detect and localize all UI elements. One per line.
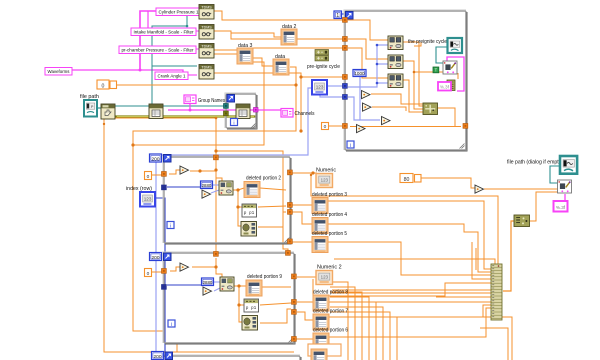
wire orange l2 dfa out xyxy=(260,309,291,323)
wire orange data in xyxy=(253,58,273,66)
svg-text:200: 200 xyxy=(151,255,159,261)
svg-text:Waveforms: Waveforms xyxy=(48,69,71,75)
tunnel loop1 r4 xyxy=(288,239,293,244)
wire orange bottom out1 xyxy=(483,317,512,360)
for loop 2 (deleted portions 6-9) xyxy=(163,252,295,344)
iteration terminal loop2 xyxy=(168,320,175,328)
tunnel loop2 index xyxy=(162,285,167,290)
label deleted portion 4 xyxy=(312,212,347,218)
svg-text:2880: 2880 xyxy=(203,280,213,285)
split waveform VI 2 xyxy=(388,55,403,69)
path control dialog xyxy=(560,156,577,174)
numeric constant 2880 (loop1) xyxy=(201,181,213,189)
TDMS Read VI 1 xyxy=(199,5,214,20)
loop2 N terminal xyxy=(164,253,172,261)
numeric control pre-ignite cycle xyxy=(312,80,327,95)
local variable deleted portion 9 xyxy=(246,280,262,296)
wire teal filepath xyxy=(97,107,101,109)
label deleted portion 3 xyxy=(312,192,347,198)
wire teal graph to write xyxy=(436,47,448,63)
tunnel blue2 xyxy=(343,95,348,100)
wire orange stair 3 xyxy=(330,292,362,360)
wire orange dp5 in xyxy=(290,241,312,243)
multiply B xyxy=(363,103,372,111)
wire lblue preignite left xyxy=(156,88,312,360)
tunnel loop1 r2 xyxy=(288,203,293,208)
tunnel loop1 r3 xyxy=(288,210,293,215)
wire orange tun2 to vi2 xyxy=(348,39,388,59)
path control file path xyxy=(84,100,97,117)
wire blue index chain xyxy=(154,198,165,355)
wire orange l2 dots xyxy=(237,284,240,306)
wire orange tdms3 out xyxy=(214,48,344,50)
wire pink intake branch xyxy=(147,11,149,28)
local variable data 3 xyxy=(237,48,253,64)
wire orange numeric2 in xyxy=(297,276,316,278)
tunnel right out xyxy=(463,124,468,129)
wire pink write2 xyxy=(564,194,566,201)
build array triangle xyxy=(475,185,484,193)
wire orange stair 1 xyxy=(330,282,348,360)
wire orange dp5 long xyxy=(334,259,495,265)
add D xyxy=(357,125,366,133)
wire orange loop1 tri in xyxy=(169,170,180,174)
wire orange dp5 out xyxy=(328,242,491,275)
small loop TDMS VI xyxy=(236,104,250,119)
tunnel tdms2 xyxy=(343,37,348,42)
wire orange dp6 in xyxy=(294,338,313,340)
multiply loop2 xyxy=(203,287,212,295)
wire orange row feed3 xyxy=(436,296,491,298)
boolean constant T xyxy=(433,67,439,73)
wire orange loop1 vert xyxy=(216,162,222,181)
tunnel loop2 zero xyxy=(162,269,167,274)
wire orange loop2 bottom stub xyxy=(176,343,178,352)
format icon 2 xyxy=(554,201,568,212)
wire orange tdms1 out xyxy=(214,11,344,20)
svg-text:80: 80 xyxy=(404,177,410,183)
wire orange dp4 in xyxy=(292,212,312,224)
wire orange tdms4 out xyxy=(214,73,344,77)
wire orange data3 down xyxy=(133,62,264,145)
label file path xyxy=(80,94,99,100)
svg-text:i: i xyxy=(350,143,351,149)
for loop 1 (deleted portions 2-5) xyxy=(163,156,291,244)
resize glyph loop1 xyxy=(285,238,290,243)
tunnel loop2 top xyxy=(214,252,219,257)
wire blue vi pins xyxy=(377,45,388,83)
label deleted portion 7 xyxy=(313,309,348,315)
wire blue vert feed xyxy=(348,45,377,87)
delete from array VI loop1 xyxy=(241,222,257,237)
svg-text:pr-chamber Pressure - Scale -: pr-chamber Pressure - Scale - Filter xyxy=(122,48,194,54)
local variable deleted portion 7 xyxy=(313,314,329,330)
split waveform VI 1 xyxy=(388,36,403,50)
wire orange fmt elbow xyxy=(457,73,459,79)
wire blue 1000 down xyxy=(360,77,380,120)
wire orange l2 ppl out xyxy=(260,303,291,305)
svg-text:deleted portion 2: deleted portion 2 xyxy=(246,176,281,182)
tunnel tdms1 xyxy=(343,18,348,23)
wire orange tun1 to vi1 xyxy=(348,20,388,40)
wire orange loop2 zero xyxy=(151,271,164,273)
tunnel loop2 r2 xyxy=(292,300,297,305)
svg-text:deleted portion 9: deleted portion 9 xyxy=(247,274,282,280)
wire pink gn left xyxy=(168,109,190,111)
wire pink waveforms xyxy=(72,70,183,73)
wire orange graph in xyxy=(414,42,421,46)
numeric constant 0 (loop2) xyxy=(145,269,152,277)
wire orange khaki out xyxy=(437,108,455,126)
wire orange barr top feeds xyxy=(475,248,477,270)
wire orange dp6 out xyxy=(329,308,491,337)
TDMS Read VI 2 xyxy=(199,25,214,40)
label deleted portion 5 xyxy=(312,231,347,237)
TDMS Open VI xyxy=(101,104,115,119)
numeric constant 1000 xyxy=(353,70,366,77)
tunnel loop1 index xyxy=(162,185,167,190)
tunnel loop1 zero xyxy=(162,172,167,177)
label file path dialog if empty xyxy=(507,160,563,166)
wire orange tri80 out xyxy=(484,188,558,190)
svg-text:pre-ignite cycle: pre-ignite cycle xyxy=(307,64,340,70)
label deleted portion 6 xyxy=(313,328,348,334)
numeric indicator Numeric xyxy=(316,174,333,188)
wire orange l1 ppl out xyxy=(258,206,286,207)
svg-text:0: 0 xyxy=(102,83,105,89)
wire orange write in xyxy=(414,71,443,73)
svg-text:i: i xyxy=(233,120,234,126)
wire orange bottom out2 xyxy=(480,328,508,360)
wire orange numeric wrap xyxy=(311,175,498,267)
svg-text:200: 200 xyxy=(151,156,159,162)
label frame clipped (bottom) xyxy=(308,344,341,356)
label Group Names xyxy=(198,98,225,104)
wire orange loop bottom run xyxy=(350,126,461,128)
write waveforms VI xyxy=(443,61,457,74)
resize glyph (preignite loop) xyxy=(460,144,465,149)
wire pink gn dot xyxy=(189,109,192,112)
wire olive refnum inner xyxy=(117,116,254,118)
label Numeric 2 xyxy=(317,265,342,271)
TDMS List Contents VI xyxy=(149,104,163,119)
wire blue 2880b stub xyxy=(214,282,220,291)
wire orange l1 ppl in xyxy=(238,206,244,208)
label data 2 xyxy=(282,24,297,30)
svg-text:Group Names: Group Names xyxy=(198,98,225,104)
wire orange loop2 tri out xyxy=(192,266,216,268)
tunnel loop1 r1 xyxy=(288,170,293,175)
wire blue loop2 in xyxy=(167,284,202,286)
wire orange dp4 out xyxy=(328,224,491,272)
wire lblue preignite right1 xyxy=(328,85,344,87)
svg-text:Crank Angle 1: Crank Angle 1 xyxy=(158,74,186,80)
numeric control index row xyxy=(140,192,155,207)
wire orange dot l1 xyxy=(214,168,217,171)
label deleted portion 2 xyxy=(246,176,281,182)
numeric constant 80 xyxy=(400,174,421,183)
resize glyph loop2 xyxy=(289,338,294,343)
string label Cylinder Pressure 1 xyxy=(156,8,201,16)
multiply C xyxy=(382,117,391,125)
for loop: group names (small) xyxy=(225,93,257,129)
small loop tunnels xyxy=(224,104,259,116)
tunnel loop2 r4 xyxy=(292,337,297,342)
wire orange zero tun xyxy=(328,125,342,127)
multiply A xyxy=(362,91,371,99)
small loop N terminal xyxy=(227,95,235,103)
small loop iteration terminal xyxy=(231,119,238,127)
wire orange write dot xyxy=(413,71,416,74)
format string VI xyxy=(438,80,455,91)
wire orange row feed2 xyxy=(332,292,491,294)
wire orange loop2 tri in xyxy=(170,267,180,271)
loop N terminal (preignite loop) xyxy=(346,12,354,20)
wire orange l1 fan xyxy=(233,190,242,226)
tunnel loop2 r3 xyxy=(292,310,297,315)
local variable deleted portion 8 xyxy=(313,295,329,311)
label Numeric xyxy=(316,168,336,174)
wire orange data2 in xyxy=(231,33,281,37)
cluster VI loop1 xyxy=(219,181,233,195)
loop3 N terminal xyxy=(165,352,173,360)
iteration terminal (preignite loop) xyxy=(347,141,354,149)
wire orange stair 6 xyxy=(330,307,383,360)
wire orange dp5b xyxy=(472,242,491,279)
wire orange khaki2 out xyxy=(530,192,558,221)
wire orange 80 out xyxy=(421,178,475,188)
label pre-ignite cycle xyxy=(307,64,340,70)
increment loop1 xyxy=(180,166,189,174)
wire orange branch loop2 top xyxy=(216,151,288,253)
tunnel zero xyxy=(343,124,348,129)
wire blue loop1 in xyxy=(167,186,201,188)
numeric constant 0 (loop edge) xyxy=(322,123,329,130)
tunnel tdms3 xyxy=(343,46,348,51)
split array VI loop2 xyxy=(244,299,259,312)
tunnel blue1 xyxy=(343,84,348,89)
in range and coerce xyxy=(423,103,438,115)
wire orange zero const xyxy=(116,84,296,86)
label deleted portion 9 xyxy=(247,274,282,280)
svg-text:Channels: Channels xyxy=(295,111,315,117)
wire orange data loop xyxy=(133,67,296,331)
wire teal tdms4 stub xyxy=(152,65,197,67)
TDMS Read VI 4 xyxy=(199,65,214,80)
local variable deleted portion 2 xyxy=(244,182,260,198)
string label Waveforms xyxy=(45,68,72,76)
wire orange tun3 to vi3 xyxy=(348,48,388,78)
wire orange numeric2 wrap xyxy=(313,279,491,296)
delete from array VI loop2 xyxy=(242,316,258,331)
wire orange l2 dp9 out xyxy=(262,286,291,288)
svg-text:2880: 2880 xyxy=(202,183,212,188)
label index (row) xyxy=(126,186,152,192)
wire pink crank to tdms4 xyxy=(188,74,197,76)
build array node xyxy=(491,264,502,320)
wire orange barr out xyxy=(503,221,514,291)
wire orange l1 dots xyxy=(236,188,239,208)
wire blue dots xyxy=(376,44,379,85)
svg-text:i: i xyxy=(171,322,172,328)
wire orange l1 dp2 out xyxy=(260,188,286,190)
wire teal dot xyxy=(186,25,189,28)
wire orange l1 dfa out xyxy=(258,212,286,227)
local variable deleted portion 4 xyxy=(312,218,328,234)
svg-text:%.3f: %.3f xyxy=(556,205,566,210)
wire orange l1 dp2 in xyxy=(238,188,244,190)
numeric constant 2880 (loop2) xyxy=(202,278,214,286)
wire orange numeric dot xyxy=(310,171,315,176)
wire pink groupnames xyxy=(190,103,281,110)
wire orange stair 7 xyxy=(330,312,390,360)
svg-text:1: 1 xyxy=(336,13,339,19)
wire orange dp red dots xyxy=(312,204,315,244)
waveform graph terminal xyxy=(448,38,463,53)
wire teal open to list xyxy=(115,105,226,107)
label deleted portion 8 xyxy=(313,290,348,296)
wire orange l2 ppl in xyxy=(239,304,244,306)
transpose array VI xyxy=(514,215,530,227)
tunnel loop2 r1 xyxy=(292,274,297,279)
numeric constant 0 (top left) xyxy=(97,80,117,89)
local variable deleted portion 3 xyxy=(312,198,328,214)
wire pink trunk xyxy=(140,11,157,70)
wire orange row feed1 xyxy=(332,289,491,291)
label the preignite cycle xyxy=(408,39,447,45)
numeric constant 200 (loop2) xyxy=(150,253,162,261)
wire pink write loop xyxy=(447,57,464,91)
iteration terminal loop1 xyxy=(167,222,174,230)
wire teal fp dialog xyxy=(550,166,560,183)
TDMS Read VI 3 xyxy=(199,44,214,59)
wire orange dp8 out xyxy=(329,301,491,303)
loop1 N terminal xyxy=(164,155,172,163)
local variable deleted portion 6 xyxy=(313,333,329,349)
svg-text:Intake Manifold - Scale - Filt: Intake Manifold - Scale - Filter xyxy=(134,30,194,36)
string array Channels xyxy=(281,109,293,118)
tunnel loop2 top b xyxy=(286,251,291,256)
write spreadsheet VI xyxy=(558,180,572,193)
numeric constant 0 (loop1) xyxy=(145,172,152,180)
string label pre-chamber Pressure xyxy=(119,46,196,54)
numeric constant 1 xyxy=(334,11,342,19)
cluster VI loop2 xyxy=(220,277,234,291)
wire blue 2880 stub xyxy=(211,185,219,193)
svg-text:0: 0 xyxy=(324,124,327,130)
svg-text:Numeric 2: Numeric 2 xyxy=(317,265,342,271)
wire orange vi1 out xyxy=(403,42,424,106)
wire orange tdms3 to data3 xyxy=(214,53,237,55)
string array constant xyxy=(184,95,196,104)
wire orange vi2 out xyxy=(403,61,424,109)
wire pink to prechamber box xyxy=(140,48,199,50)
wire orange numeric in xyxy=(292,172,317,174)
wire olive tdms refnum xyxy=(115,115,256,117)
svg-text:i: i xyxy=(170,223,171,229)
wire orange dp8 in xyxy=(297,301,313,303)
string label Intake Manifold xyxy=(131,28,196,36)
label data xyxy=(275,54,285,60)
wire orange stair 4 xyxy=(330,297,369,360)
numeric constant 200 (loop1) xyxy=(150,154,162,162)
svg-text:0: 0 xyxy=(147,271,150,277)
wire orange branch down xyxy=(299,75,302,132)
increment loop2 xyxy=(180,263,189,271)
wire orange stair 2 xyxy=(330,287,355,360)
TDMS property node pair xyxy=(315,50,329,61)
wire orange triB out xyxy=(372,107,406,111)
wire orange loop1 tri out xyxy=(190,169,216,172)
svg-text:200: 200 xyxy=(153,354,161,360)
local variable deleted portion 5 xyxy=(312,237,328,253)
svg-text:file path (dialog if empty): file path (dialog if empty) xyxy=(507,160,563,166)
tunnel loop1 top xyxy=(214,155,219,160)
svg-text:Numeric: Numeric xyxy=(316,168,336,174)
wire orange dot285 xyxy=(294,83,297,86)
svg-text:Cylinder Pressure 1: Cylinder Pressure 1 xyxy=(159,10,199,16)
local variable data 2 xyxy=(281,29,297,45)
svg-text:1000: 1000 xyxy=(354,71,365,76)
small loop resize glyph xyxy=(251,124,256,129)
wire orange tdms2 out xyxy=(214,31,344,39)
numeric indicator Numeric 2 xyxy=(316,271,333,285)
wire orange junction dots xyxy=(103,117,218,153)
wire orange dp red dots2 xyxy=(313,301,316,341)
wire pink to intake box xyxy=(140,30,199,32)
for loop: preignite scan (top right) xyxy=(344,10,467,151)
wire orange left trunk A xyxy=(104,119,294,352)
wire orange loop1 zero xyxy=(151,174,163,176)
local variable data xyxy=(273,59,289,75)
wire lblue preignite right2 xyxy=(320,95,344,97)
multiply loop1 xyxy=(202,190,211,198)
wire orange l2 dp9 in xyxy=(239,285,246,287)
split waveform VI 3 xyxy=(388,74,403,88)
svg-text:0: 0 xyxy=(147,174,150,180)
wire orange dp3 in xyxy=(292,204,312,206)
wire orange left branch xyxy=(104,118,216,254)
wire orange vi3 out xyxy=(403,80,424,112)
wire orange dot l2 xyxy=(214,265,217,268)
for loop 3 (bottom, clipped) xyxy=(162,355,301,360)
numeric constant 200 (loop3) xyxy=(152,352,164,360)
string label Crank Angle 1 xyxy=(155,72,188,80)
wire pink junction xyxy=(139,69,142,72)
wire orange dp3 out xyxy=(328,201,491,269)
svg-text:the preignite cycle: the preignite cycle xyxy=(408,39,447,45)
tunnel tdms4 xyxy=(343,75,348,80)
local variable clipped (bottom) xyxy=(311,349,327,360)
wire blue tun2 xyxy=(348,97,360,120)
wire orange dp7 out xyxy=(329,305,491,317)
wire orange stair 8 xyxy=(330,317,397,360)
wire orange triA out xyxy=(371,94,424,104)
wire orange loop2 vert xyxy=(216,258,222,277)
wire orange l2 fan xyxy=(234,286,242,322)
wire blue one const xyxy=(341,13,345,15)
wire orange dp7 in xyxy=(297,312,313,320)
wire orange stair 5 xyxy=(330,302,376,360)
label data 3 xyxy=(238,43,253,49)
wire teal tdms chain v1 xyxy=(152,16,187,104)
label Channels xyxy=(295,111,315,117)
split array VI loop1 xyxy=(242,204,257,217)
